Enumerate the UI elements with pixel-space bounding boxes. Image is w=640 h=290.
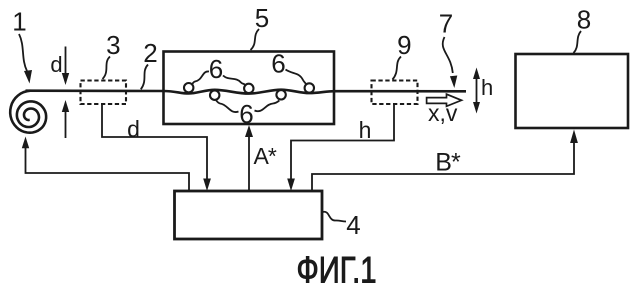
h double arrow bbox=[476, 75, 478, 106]
leader 6c to roller c5 bbox=[286, 70, 307, 85]
svg-text:B*: B* bbox=[435, 149, 461, 177]
wire: feedback to uncoiler bbox=[26, 147, 190, 191]
svg-text:9: 9 bbox=[397, 30, 411, 60]
wire: B* command to box 8 bbox=[312, 139, 574, 191]
leader 6e to roller c4 bbox=[255, 101, 280, 112]
svg-text:6: 6 bbox=[271, 49, 285, 79]
leader from label 9 bbox=[393, 57, 402, 80]
box 8 (downstream unit) bbox=[516, 54, 629, 128]
svg-text:5: 5 bbox=[255, 3, 269, 33]
wire: d signal to box 4 bbox=[102, 105, 207, 181]
leader from label 5 bbox=[251, 29, 260, 50]
svg-text:ФИГ.1: ФИГ.1 bbox=[297, 250, 377, 290]
leader arrow from label 7 bbox=[443, 37, 453, 73]
svg-text:x,v: x,v bbox=[428, 100, 458, 126]
dashed box 3 (thickness sensor) bbox=[81, 81, 127, 105]
leader 6a to roller c1 bbox=[192, 71, 209, 84]
wire: A* command to box 5 bbox=[248, 134, 250, 191]
svg-text:h: h bbox=[359, 117, 372, 143]
roller c2 bbox=[210, 91, 219, 100]
d measurement arrows bbox=[65, 47, 67, 75]
roller c5 bbox=[305, 83, 314, 92]
svg-text:6: 6 bbox=[209, 54, 223, 84]
leader arrow from label 1 bbox=[19, 34, 27, 71]
svg-text:6: 6 bbox=[239, 99, 253, 129]
svg-text:h: h bbox=[481, 75, 493, 100]
leader 6d to roller c2 bbox=[216, 100, 239, 112]
svg-text:d: d bbox=[50, 52, 62, 77]
leader from label 3 bbox=[103, 57, 111, 80]
leader from label 4 bbox=[323, 212, 347, 222]
svg-text:A*: A* bbox=[254, 143, 277, 169]
dashed box 9 (height sensor) bbox=[372, 81, 418, 105]
svg-text:d: d bbox=[127, 116, 140, 142]
leader from label 2 bbox=[141, 65, 148, 90]
svg-text:3: 3 bbox=[106, 30, 120, 60]
box 4 (control unit) bbox=[175, 191, 323, 239]
svg-text:7: 7 bbox=[439, 9, 453, 39]
svg-text:4: 4 bbox=[346, 210, 360, 240]
leader 6b to roller c3 bbox=[223, 76, 245, 85]
svg-text:8: 8 bbox=[577, 5, 591, 35]
wire (strip being processed) bbox=[26, 90, 467, 94]
block arrow x,v (outline) bbox=[427, 94, 462, 106]
roller c1 bbox=[184, 83, 193, 92]
wire: h signal to box 4 bbox=[291, 105, 394, 181]
box 5 (rolling stand) bbox=[164, 52, 335, 125]
svg-text:1: 1 bbox=[12, 7, 26, 37]
coil (uncoiler spiral) bbox=[10, 91, 46, 133]
roller c4 bbox=[276, 90, 285, 99]
svg-text:2: 2 bbox=[143, 38, 157, 68]
roller c3 bbox=[244, 84, 253, 93]
leader from label 8 bbox=[574, 31, 582, 53]
